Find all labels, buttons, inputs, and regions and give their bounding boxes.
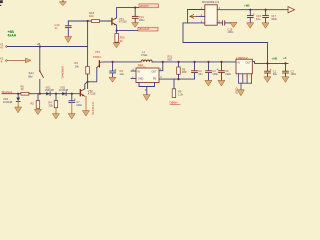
ground arrow under R20 [113,43,120,48]
wire C1 ground [267,73,269,77]
wire base rail [68,20,112,22]
capacitor C3 [192,71,198,73]
IC DA1 [205,5,217,25]
IC DA2 bottom pins [139,83,155,87]
capacitor C6 [217,67,225,72]
wire VT2 collector up [85,82,88,89]
capacitor C14 label [139,15,145,22]
svg-text:OBSH: OBSH [170,101,178,105]
wire C16 ground [249,18,251,23]
wire C17 ground [265,18,267,23]
pin numbers red [238,76,253,78]
wire C6 drop [221,62,223,71]
wire battery rail [7,46,88,48]
ground arrow under VD3 [15,107,22,113]
pin numbers [201,7,221,23]
node R4 [55,93,57,95]
wire C3 to fb rail [194,73,196,79]
switch SA1 [29,70,44,78]
svg-text:+: + [270,68,272,72]
svg-text:10u: 10u [256,17,261,21]
wire emitter down [117,25,153,30]
diode VD2 [62,92,66,96]
svg-text:+: + [253,12,255,16]
svg-text:KT814: KT814 [93,55,101,59]
wire VT2 emitter ground [85,96,87,110]
IC DA2 label [137,63,146,70]
wire collector up [117,8,152,18]
wire mid column [87,21,89,67]
wire C9 ground [112,73,114,77]
resistor R18 [92,20,100,23]
wire C14 to ground [134,19,136,23]
wire R4 drop [55,94,57,101]
wire R4 ground [55,108,57,114]
node R5 [177,61,179,63]
svg-text:VT3: VT3 [95,50,100,54]
capacitor C9 label [120,69,125,76]
node C4 [207,61,209,63]
wire R20 to ground [116,41,118,44]
transistor VT3 [93,50,104,68]
svg-text:SIRENA1: SIRENA1 [61,66,65,79]
svg-text:1N4148: 1N4148 [45,88,55,92]
node C1 [266,62,268,64]
ground arrow under R2 [35,109,42,114]
node C17 [265,9,267,11]
ground arrow under C6 [218,80,225,85]
wire corner to C10 [67,21,69,25]
pin 4 [131,70,136,72]
port arrow right [26,58,31,63]
ground arrow under C10 [65,37,72,43]
port arrow right out [288,7,295,13]
node fb [177,78,179,80]
ground arrow right of C15 [230,22,237,27]
ground arrow under C16 [247,23,254,28]
node +B [37,42,41,48]
svg-text:4xAA: 4xAA [8,34,17,38]
capacitor C4 [206,71,212,73]
svg-text:OUT: OUT [152,70,158,73]
diode VD1 [46,92,50,96]
svg-text:+B: +B [37,42,41,46]
svg-text:OUT: OUT [246,62,252,65]
svg-text:R2: R2 [31,101,35,105]
svg-text:100n: 100n [228,30,234,34]
ground arrow under C7 [68,114,75,119]
svg-text:100u: 100u [76,103,82,107]
svg-text:KT3107A: KT3107A [91,103,95,116]
pin 1 wire [188,9,205,11]
circuit schematic [0,0,300,124]
wire R2 ground [37,108,39,109]
ground arrow under C4 [205,80,212,85]
wire gnd return [183,23,268,64]
svg-text:47uH: 47uH [141,53,147,57]
svg-text:MC33269-3.3: MC33269-3.3 [202,0,219,4]
connector pin X2:2 [0,57,4,64]
capacitor C10 [65,26,71,28]
wire C7 drop [71,94,73,101]
capacitor C17 [263,16,269,18]
svg-text:GND: GND [235,88,239,94]
node R18 left [87,20,89,22]
svg-text:1N4148: 1N4148 [59,88,69,92]
capacitor C9 [110,68,117,73]
node C16 [249,9,251,11]
ground arrow under DA2 [143,95,150,101]
wire R3 down [87,74,89,89]
svg-text:SIGNAL: SIGNAL [2,90,13,94]
corner text fragment [0,0,3,6]
svg-text:10k: 10k [89,14,94,18]
svg-text:100n: 100n [290,72,296,76]
capacitor C14 [132,16,138,18]
resistor R18 label [89,11,95,18]
node C3 [193,61,195,63]
node switch rail [39,93,41,95]
pin 1 [131,78,136,80]
resistor R4 label [49,101,54,108]
resistor R9 [172,89,176,98]
wire C9 drop [112,62,114,71]
node out [162,61,164,63]
pin 3 wire [188,22,205,24]
svg-text:+: + [115,68,117,72]
wire tie pins 1-3 [187,10,189,23]
resistor R2 label [31,101,35,105]
svg-text:10n: 10n [198,72,203,76]
capacitor C16 label [256,14,261,21]
ground arrow under C9 [109,77,116,82]
capacitor C17 label [271,14,277,21]
resistor R6 label [21,84,25,91]
svg-text:10k: 10k [75,64,80,68]
connector pin X2:1 [0,43,4,50]
svg-text:GND: GND [138,78,144,81]
wire C4 drop [208,62,210,71]
pin 5 wire to C15 [217,22,222,24]
resistor R9 label [178,90,184,97]
wire to port [7,60,26,62]
wire to R20 [116,31,118,34]
resistor R4 [54,101,58,108]
svg-text:Bkl: Bkl [29,75,33,79]
wire switch to bottom rail [39,80,41,94]
svg-text:100n: 100n [212,72,218,76]
wire C10 to ground [67,28,69,37]
transistor VT2 [80,89,96,97]
wire C14 drop [134,8,136,16]
node R20 top [116,30,118,32]
resistor R3 label [75,61,80,68]
svg-text:+: + [217,67,219,71]
resistor R21 label [168,55,173,62]
wire to R5 [178,62,180,67]
pin out wire up [159,62,163,71]
svg-text:100u: 100u [225,72,231,76]
svg-text:IN: IN [138,70,141,73]
svg-text:10u: 10u [273,72,278,76]
capacitor C7 label [76,100,82,107]
capacitor C10 label [55,23,60,30]
capacitor C7 [69,98,76,103]
capacitor C15 [222,21,224,25]
inductor L1 label [141,50,147,57]
capacitor C2 label [290,69,296,76]
svg-text:100n: 100n [271,17,277,21]
node C6 [220,61,222,63]
IC DA3 bottom pins [239,74,252,90]
node C2 [284,62,286,64]
node mid [87,81,89,83]
resistor R20 label [120,36,125,43]
ground arrow under C2 [282,77,289,82]
ground arrow under VT2 [83,111,90,116]
wire VD3 drop [17,94,19,98]
bottom input rail [2,93,80,95]
ground arrow under C1 [264,77,271,82]
capacitor C15 label [228,27,234,34]
wire R2 drop [37,94,39,101]
svg-text:1.2k: 1.2k [178,92,184,96]
wire C7 ground [71,103,73,114]
wire C4 ground [208,73,210,81]
wire C6 ground [221,73,223,81]
resistor R2 [36,101,40,109]
wire C1 drop [267,63,269,70]
wire +6V rail top [217,9,288,11]
resistor R3 [86,67,90,75]
capacitor C6 label [225,69,231,76]
net label red mid [138,27,158,31]
wire C16 drop [249,10,251,16]
resistor R5 [177,67,181,74]
diode VD1 label [45,85,55,92]
resistor R20 [115,34,119,43]
resistor R6 [21,92,29,95]
wire R5 to fb rail [178,74,180,79]
capacitor C2 [283,71,289,73]
wire to R9 [173,79,175,89]
wire C15 to ground [225,22,234,24]
ground arrow under DA3 [238,90,245,96]
diode VD3 [3,97,20,104]
svg-text:+6B: +6B [244,4,250,8]
svg-text:KT315: KT315 [88,92,96,96]
wire node to VT3 [88,68,97,82]
wire fb rail [159,78,195,80]
svg-text:360: 360 [182,70,187,74]
svg-text:ZV.OUT: ZV.OUT [139,27,150,31]
power arrow top [60,0,67,6]
IC DA2 [136,68,159,83]
svg-text:KT315: KT315 [119,20,127,24]
svg-text:1N4148: 1N4148 [3,100,13,104]
capacitor C16 [247,12,254,17]
wire C17 drop [265,10,267,16]
battery label GB1 [8,30,17,38]
wire DA3 out rail [252,62,288,64]
net label red top [139,4,159,8]
wire C3 drop [194,62,196,71]
net label red under R9 [170,101,178,105]
wire C2 drop [285,63,287,70]
svg-text:IN: IN [238,62,241,65]
svg-text:ZV.PIT: ZV.PIT [140,4,149,8]
wire main mid rail [104,61,141,63]
pin 2 wire [197,15,205,17]
capacitor C3 label [198,69,203,76]
node C9 [112,61,114,63]
port arrow input [190,15,197,19]
svg-text:10u: 10u [120,72,125,76]
ground arrow under C17 [262,23,269,28]
resistor R5 label [182,67,187,74]
svg-text:FB: FB [153,78,156,81]
net label +5V green [272,56,287,61]
capacitor C1 label [273,69,278,76]
svg-text:100n: 100n [139,18,145,22]
svg-text:22k: 22k [49,103,54,107]
node VD3 [17,93,19,95]
transistor VT1 [112,17,127,25]
svg-text:+5: +5 [283,56,287,60]
capacitor C1 [265,68,272,73]
wire switch column [39,47,41,72]
svg-text:+5B: +5B [272,57,278,61]
capacitor C4 label [212,69,218,76]
diode VD2 label [59,85,69,92]
ground arrow under R4 [53,114,60,119]
wire C2 ground [285,73,287,77]
node C7 [71,93,73,95]
IC DA3 [236,59,252,74]
ground arrow under C14 [132,23,139,28]
node C14 top [134,7,136,9]
wire VD3 ground [17,102,19,108]
inductor L1 [141,60,152,62]
svg-text:820: 820 [168,57,173,61]
